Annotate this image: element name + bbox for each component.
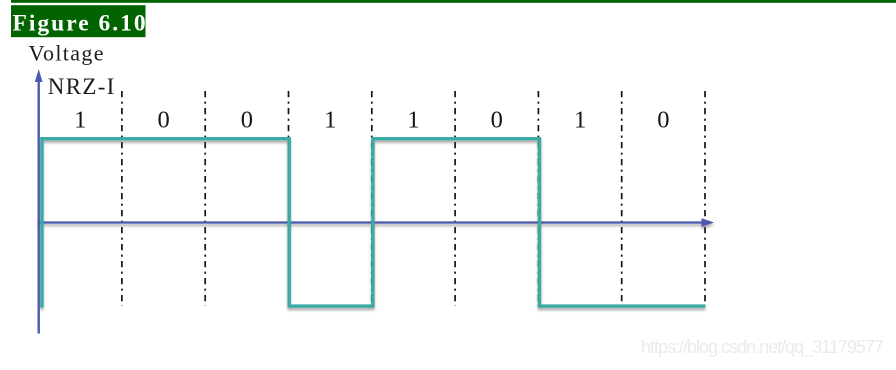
- svg-text:0: 0: [657, 107, 669, 134]
- svg-text:1: 1: [74, 107, 86, 134]
- voltage axis (vertical): [35, 69, 43, 333]
- figure label box: [11, 5, 146, 37]
- svg-text:0: 0: [157, 107, 169, 134]
- svg-text:0: 0: [241, 107, 253, 134]
- bit-cell boundary dash-dot lines: [122, 91, 705, 306]
- voltage axis arrowhead: [35, 69, 43, 82]
- svg-text:NRZ-I: NRZ-I: [48, 74, 116, 99]
- bit boundary 2: [204, 91, 206, 306]
- bit boundary 4: [371, 91, 373, 306]
- svg-text:Figure 6.10: Figure 6.10: [13, 10, 148, 36]
- bit boundary 5: [454, 91, 456, 306]
- svg-text:Voltage: Voltage: [29, 40, 105, 65]
- time axis arrowhead: [702, 218, 715, 226]
- bit boundary 6: [537, 91, 539, 306]
- svg-text:1: 1: [324, 107, 336, 134]
- svg-text:https://blog.csdn.net/qq_31179: https://blog.csdn.net/qq_31179577: [641, 337, 884, 358]
- time axis (horizontal): [38, 218, 715, 226]
- top green rule: [11, 0, 896, 3]
- NRZ-I waveform: [42, 139, 705, 308]
- bit boundary 7: [621, 91, 623, 306]
- svg-text:1: 1: [574, 107, 586, 134]
- bit value labels: [74, 107, 669, 134]
- svg-text:0: 0: [491, 107, 503, 134]
- bit boundary 1: [121, 91, 123, 306]
- bit boundary 8: [704, 91, 706, 306]
- svg-text:1: 1: [407, 107, 419, 134]
- bit boundary 3: [288, 91, 290, 306]
